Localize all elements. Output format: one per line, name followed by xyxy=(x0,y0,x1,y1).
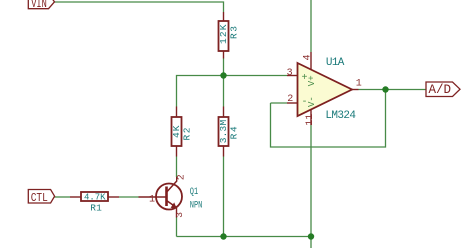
junction rail V- xyxy=(308,233,314,239)
pin stub 1 output xyxy=(352,89,359,91)
port CTL xyxy=(28,190,54,206)
transistor circle xyxy=(156,184,182,210)
wire output to A/D xyxy=(359,89,427,91)
wire VIN to R3 xyxy=(55,2,224,12)
resistor R4 xyxy=(218,107,239,157)
base pin xyxy=(139,196,167,198)
junction output xyxy=(382,86,388,92)
svg-text:V-: V- xyxy=(307,96,317,107)
svg-text:2: 2 xyxy=(176,174,187,180)
pin stub 4 V+ xyxy=(310,52,312,70)
wire feedback loop xyxy=(271,90,386,148)
svg-text:3: 3 xyxy=(287,68,293,79)
emitter diagonal xyxy=(167,201,177,208)
wire R2 to Q1 collector xyxy=(176,157,178,178)
svg-text:NPN: NPN xyxy=(190,199,203,211)
port A/D xyxy=(426,82,460,97)
wire opamp pin2 xyxy=(271,102,288,104)
svg-text:3: 3 xyxy=(174,212,185,218)
svg-text:11: 11 xyxy=(305,114,316,126)
wire R4 to bottom rail xyxy=(223,157,225,237)
wire Q1 emitter to bottom rail xyxy=(176,218,178,237)
svg-text:LM324: LM324 xyxy=(325,110,356,122)
svg-text:U1A: U1A xyxy=(326,57,345,69)
op-amp U1A xyxy=(287,52,362,126)
svg-text:R1: R1 xyxy=(90,203,102,214)
resistor R3 xyxy=(218,12,239,59)
wire R1 to Q1 base xyxy=(119,196,139,198)
svg-text:1: 1 xyxy=(149,194,155,205)
svg-text:R3: R3 xyxy=(228,26,239,39)
svg-text:R4: R4 xyxy=(228,126,239,139)
svg-text:4.7K: 4.7K xyxy=(84,193,106,203)
svg-text:R2: R2 xyxy=(181,127,192,140)
base bar xyxy=(165,187,168,207)
svg-text:2: 2 xyxy=(287,94,293,105)
svg-text:Q1: Q1 xyxy=(190,186,198,198)
pin stub 2 xyxy=(287,102,298,104)
svg-text:CTL: CTL xyxy=(31,191,48,205)
wire R3 to junction xyxy=(223,59,225,76)
wire junction row to opamp pin3 xyxy=(177,76,288,107)
wire bottom rail xyxy=(177,237,312,248)
resistor R2 xyxy=(171,107,192,157)
pin stub 11 V- xyxy=(310,109,312,125)
svg-text:1: 1 xyxy=(356,78,362,89)
resistor R1 xyxy=(70,192,119,214)
svg-text:4: 4 xyxy=(303,54,314,60)
svg-text:3.3M: 3.3M xyxy=(218,120,229,144)
junction rail R4 xyxy=(220,233,226,239)
collector pin xyxy=(176,177,178,181)
wire V+ from top xyxy=(310,0,312,52)
emitter pin xyxy=(176,208,178,218)
emitter arrow xyxy=(171,202,177,208)
port VIN xyxy=(28,0,54,11)
wire CTL to R1 xyxy=(55,196,71,198)
transistor Q1 xyxy=(139,174,203,218)
svg-text:A/D: A/D xyxy=(429,83,452,97)
wire junction to R4 xyxy=(223,76,225,107)
svg-text:VIN: VIN xyxy=(31,0,47,11)
junction below R3 xyxy=(220,72,226,78)
pin stub 3 xyxy=(287,75,298,77)
collector diagonal xyxy=(167,181,178,193)
wire V- down to rail xyxy=(310,125,312,237)
triangle body xyxy=(298,63,353,116)
svg-text:V+: V+ xyxy=(307,75,317,86)
